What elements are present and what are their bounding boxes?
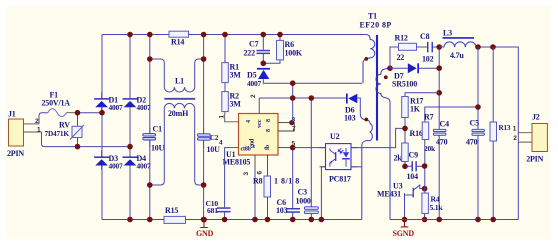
svg-text:681: 681 xyxy=(207,206,218,215)
pin 6 of U1 xyxy=(267,155,269,168)
junction: fuse output at bridge column xyxy=(99,110,105,116)
junction: line2 at D2/D4 column xyxy=(127,144,133,150)
junction: C7/R6/D5 node xyxy=(261,61,267,67)
svg-text:103: 103 xyxy=(344,114,356,123)
svg-text:7: 7 xyxy=(292,126,296,133)
capacitor C3 1000 electrolytic xyxy=(296,188,319,214)
svg-text:4007: 4007 xyxy=(109,162,123,171)
svg-text:ME431: ME431 xyxy=(377,190,401,199)
junction: rail at R8 column xyxy=(265,217,271,223)
svg-text:SGND: SGND xyxy=(393,229,415,238)
svg-text:6: 6 xyxy=(257,171,264,175)
resistor R15 in ground rail xyxy=(164,206,186,223)
wire: R17 bottom to R16 top xyxy=(404,118,406,144)
wire: L3 right along output rail to J2 pin1 xyxy=(439,47,518,220)
svg-text:4: 4 xyxy=(219,140,223,147)
svg-text:PC817: PC817 xyxy=(329,175,351,184)
svg-text:3M: 3M xyxy=(230,100,242,109)
capacitor C9 104 xyxy=(407,151,419,182)
svg-text:vcc: vcc xyxy=(256,119,263,128)
junction: SGND rail at U3 anode xyxy=(402,217,408,223)
svg-text:104: 104 xyxy=(407,172,419,181)
svg-text:C5: C5 xyxy=(470,119,480,128)
svg-text:C3: C3 xyxy=(298,188,308,197)
wire: AC input line2 row xyxy=(42,132,131,147)
junction: R17/R16/opto node xyxy=(402,126,408,132)
wire: R6 leads and link to C7/D5 node xyxy=(263,35,280,64)
wire: C9 right lead to U3 cathode column xyxy=(417,165,425,167)
svg-text:102: 102 xyxy=(422,55,434,64)
junction: U3 cathode / R4 node xyxy=(422,186,428,192)
pin 2 of J1 xyxy=(24,123,40,125)
resistor R13 xyxy=(490,122,511,141)
svg-text:ME8105: ME8105 xyxy=(223,158,251,167)
svg-text:SR5100: SR5100 xyxy=(392,80,417,89)
junction: pins 8/7 tie xyxy=(289,120,294,125)
wire: C5 column xyxy=(477,47,479,220)
junction: secondary top node xyxy=(387,65,393,71)
shunt regulator U3 ME431 xyxy=(405,185,424,220)
svg-text:T1: T1 xyxy=(368,12,377,21)
svg-text:22: 22 xyxy=(397,53,405,62)
junction: R7/C9 right node xyxy=(422,163,428,169)
polarity dot aux xyxy=(364,118,368,122)
svg-text:U2: U2 xyxy=(330,132,340,141)
svg-text:3: 3 xyxy=(243,172,250,176)
svg-text:2k: 2k xyxy=(394,154,403,163)
junction: SGND rail at C5 xyxy=(475,217,481,223)
wire: pin3 down to ground rail xyxy=(254,168,256,220)
junction: ground rail at D2/D4 column xyxy=(127,217,133,223)
wire: L1 top winding leads xyxy=(150,59,204,87)
junction: D5 wire at x=293 xyxy=(290,80,296,86)
wire: bridge left column x=102 xyxy=(101,35,103,220)
diode D1 4007 xyxy=(94,95,123,112)
transformer T1 primary winding xyxy=(363,35,375,84)
U2 internal LED xyxy=(338,148,346,167)
svg-text:470: 470 xyxy=(436,138,448,147)
wire: L1 bottom winding leads xyxy=(150,108,204,185)
svg-text:R12: R12 xyxy=(395,34,408,43)
capacitor C2 10U xyxy=(198,129,221,154)
svg-text:J1: J1 xyxy=(8,110,16,119)
svg-text:R15: R15 xyxy=(165,206,178,215)
wire: R1 top lead to rail, R1-R2 link, R2 bottom stub xyxy=(224,35,226,113)
pin 7 of U1 xyxy=(278,123,294,131)
junction: SGND rail at R13 xyxy=(490,217,496,223)
ground symbol SGND xyxy=(393,220,415,238)
junction: rail at C6 column xyxy=(290,217,296,223)
wire: C1 column x=149.8 xyxy=(149,35,151,220)
svg-text:C9: C9 xyxy=(409,151,419,160)
svg-text:L3: L3 xyxy=(443,29,452,38)
transformer T1 EF20 8P labels xyxy=(360,12,392,30)
resistor R14 xyxy=(169,31,189,46)
op-amp U1 ME8105 control IC xyxy=(223,114,279,167)
varistor RV 7D471K xyxy=(45,120,85,139)
wire: U2 left-bottom pin down to ground rail xyxy=(321,167,325,220)
wire: x=311.3 column from vcc wire through C3 to rail xyxy=(310,98,312,220)
junction: vcc wire at x=293 xyxy=(290,95,296,101)
resistor R1 3M xyxy=(222,63,242,83)
transformer T1 core xyxy=(376,35,378,141)
diode D7 SR5100 xyxy=(392,63,419,88)
junction: pin5 node xyxy=(290,145,296,151)
capacitor C5 470 electrolytic xyxy=(466,119,484,147)
svg-text:1: 1 xyxy=(37,126,41,133)
wire: R13 column xyxy=(492,47,494,220)
U2 internal phototransistor xyxy=(330,148,336,167)
pin 4 of U1 wire to C10 column xyxy=(230,147,239,149)
svg-text:L1: L1 xyxy=(175,77,184,86)
junction: SGND rail at R4 xyxy=(422,217,428,223)
connector J2 xyxy=(526,112,547,163)
svg-text:EF20 8P: EF20 8P xyxy=(360,21,392,30)
junction: rail at pin3 column xyxy=(252,217,258,223)
capacitor C10 681 xyxy=(206,199,231,215)
svg-text:100K: 100K xyxy=(285,49,303,58)
U2 pin stubs xyxy=(320,148,358,167)
svg-text:5.1k: 5.1k xyxy=(430,203,444,212)
resistor R12 22 xyxy=(395,34,417,63)
resistor R16 2k xyxy=(394,129,423,163)
capacitor C4 470 electrolytic xyxy=(433,120,449,147)
wire: U2 left-top pin to pin5 node xyxy=(293,147,326,149)
svg-text:8: 8 xyxy=(266,129,272,132)
junction: C5 column at R7 row xyxy=(475,104,481,110)
svg-text:R14: R14 xyxy=(171,38,184,47)
wire: R12 to C8 xyxy=(417,46,428,48)
wire: RV column xyxy=(77,113,79,147)
svg-text:20k: 20k xyxy=(424,144,436,153)
wire: SGND bottom rail xyxy=(390,219,519,221)
svg-text:20mH: 20mH xyxy=(168,109,189,118)
wire: C2 column x=203.6 xyxy=(203,35,205,220)
wire: R16 bottom to C9 xyxy=(405,162,412,167)
junction: top rail at R1 column xyxy=(222,32,228,38)
resistor R4 5.1k xyxy=(422,193,443,214)
pin stubs of J2 xyxy=(518,133,532,142)
svg-text:222: 222 xyxy=(244,49,256,58)
svg-text:2: 2 xyxy=(250,94,257,98)
junction: rail at C10/pin4 column xyxy=(222,217,228,223)
diode D5 4007 xyxy=(247,68,270,88)
pin 8 of U1 xyxy=(278,122,292,124)
svg-text:7D471K: 7D471K xyxy=(45,129,70,138)
junction: RV top xyxy=(75,110,81,116)
svg-text:4: 4 xyxy=(246,120,252,123)
diode D3 4007 xyxy=(94,154,123,171)
capacitor C1 10U xyxy=(143,125,165,153)
svg-text:R13: R13 xyxy=(499,124,511,132)
svg-text:1: 1 xyxy=(219,115,226,119)
resistor R6 100K xyxy=(277,40,303,60)
svg-text:4007: 4007 xyxy=(137,103,151,112)
junction: output column at snubber row xyxy=(436,44,442,50)
pin 3 of U1 xyxy=(254,155,256,168)
junction: D2 column at top rail xyxy=(127,32,133,38)
svg-text:4007: 4007 xyxy=(247,79,261,88)
svg-text:2PIN: 2PIN xyxy=(526,155,543,164)
svg-text:4.7u: 4.7u xyxy=(450,51,464,60)
junction: output rail at R13 column xyxy=(490,44,496,50)
svg-text:470: 470 xyxy=(466,138,478,147)
junction: top rail at R6 column xyxy=(277,32,283,38)
junction: ground rail at C1 column xyxy=(147,217,153,223)
junction: L1 top winding left tap xyxy=(147,56,153,62)
wire: R17 feed row xyxy=(405,93,439,97)
capacitor C8 102 xyxy=(420,32,434,64)
svg-text:C1: C1 xyxy=(153,125,163,134)
pin 1 of U1 gray pin wire xyxy=(225,113,239,122)
transformer T1 secondary winding xyxy=(376,68,390,219)
svg-text:4007: 4007 xyxy=(137,162,151,171)
junction: top rail at C1 column xyxy=(147,32,153,38)
svg-text:ct8b: ct8b xyxy=(241,147,252,153)
resistor R7 20k xyxy=(422,113,436,154)
diode D4 4007 xyxy=(123,154,151,171)
svg-text:103: 103 xyxy=(276,206,288,215)
transformer T1 aux winding xyxy=(362,120,373,220)
junction: rail at C3 column xyxy=(309,217,315,223)
capacitor C7 222 xyxy=(244,40,271,58)
pin 2 of U1 (top) xyxy=(258,98,260,114)
fuse F1 xyxy=(42,91,76,117)
resistor R8 1.8/18 xyxy=(253,176,300,197)
diode D2 4007 xyxy=(123,95,151,112)
diode D6 103 xyxy=(344,94,357,123)
optocoupler U2 PC817 xyxy=(326,132,352,184)
svg-text:250V/1A: 250V/1A xyxy=(42,99,71,108)
junction: RV bottom xyxy=(75,144,81,150)
svg-text:1000: 1000 xyxy=(296,197,311,206)
svg-text:C2: C2 xyxy=(210,134,219,142)
junction: L1 top winding right tap xyxy=(201,56,207,62)
svg-text:C8: C8 xyxy=(420,32,430,41)
wire: R7 bottom through C9 node to R4 xyxy=(424,140,426,194)
junction: output rail at C5 column xyxy=(475,44,481,50)
polarity dot primary xyxy=(364,57,368,61)
resistor R17 1K xyxy=(402,97,424,118)
wire: R4 bottom to SGND rail xyxy=(424,214,426,220)
svg-text:10U: 10U xyxy=(151,144,165,153)
svg-text:C4: C4 xyxy=(440,120,450,129)
inductor L1 20mH common mode choke xyxy=(164,87,195,108)
svg-text:1K: 1K xyxy=(410,105,421,114)
wire: C10 bottom to rail xyxy=(224,212,226,219)
svg-text:8: 8 xyxy=(266,119,272,122)
wire: AC input line1 fuse row xyxy=(39,113,102,124)
ground symbol GND xyxy=(196,217,214,238)
svg-text:1: 1 xyxy=(513,126,517,133)
inductor L3 4.7u xyxy=(443,29,476,61)
pin 1 of J1 xyxy=(24,131,42,133)
wire: D5 anode down to primary-bottom wire y=83 xyxy=(263,79,362,83)
svg-text:2: 2 xyxy=(513,135,517,142)
wire: output column x=439.2 top to C4 xyxy=(438,47,440,220)
wire: x=293 column pin5 down through C6 to rail xyxy=(292,148,294,220)
svg-text:R16: R16 xyxy=(410,129,423,138)
svg-text:2: 2 xyxy=(35,118,39,125)
svg-text:1 8/1 8: 1 8/1 8 xyxy=(274,177,300,186)
wire: C7 column from rail to snubber node xyxy=(262,35,264,63)
wire: top DC rail from bridge to transformer primary xyxy=(102,34,366,36)
wire: bridge right column x=130 xyxy=(129,35,131,220)
junction: SGND rail at C4 xyxy=(436,217,442,223)
junction: vcc wire at x=311.3 xyxy=(309,95,315,101)
svg-text:GND: GND xyxy=(196,229,214,238)
resistor R2 3M xyxy=(222,92,242,112)
junction: L1 bottom winding right tap xyxy=(201,182,207,188)
svg-text:R8: R8 xyxy=(253,177,263,186)
wire: R12 left lead down to secondary top node xyxy=(390,47,399,68)
svg-text:C7: C7 xyxy=(249,40,259,49)
polarity dot secondary xyxy=(384,75,388,79)
wire: U2 right-bottom pin to x=362 / aux return xyxy=(351,166,362,168)
wire: D6 anode to aux winding top xyxy=(357,98,366,120)
junction: L1 bottom winding left tap xyxy=(147,182,153,188)
svg-text:RV: RV xyxy=(59,120,70,129)
junction: output column at R17 feed row xyxy=(436,90,442,96)
wire: U2 right-top pin to R16 node xyxy=(351,128,406,147)
junction: top rail at C2 column xyxy=(201,32,207,38)
svg-text:J2: J2 xyxy=(532,112,540,121)
junction: rail at x=321.4 xyxy=(319,217,325,223)
wire: C8 right to output column xyxy=(433,46,439,48)
pin 5 of U1 xyxy=(278,147,293,149)
svg-text:3M: 3M xyxy=(230,71,242,80)
wire: x=293 column D5 wire to pins 8/7 xyxy=(292,83,294,122)
svg-text:2PIN: 2PIN xyxy=(7,149,24,158)
svg-text:fb: fb xyxy=(265,144,271,150)
wire: R8 bottom to ground rail xyxy=(267,197,269,220)
junction: R16/C9 node xyxy=(402,164,408,170)
wire: bottom GND rail (primary side) xyxy=(102,219,362,221)
wire: vcc net y=98 from U1 pin2 to D6 xyxy=(259,97,346,99)
junction: ground rail at C2 column xyxy=(201,217,207,223)
svg-text:R7: R7 xyxy=(424,113,434,122)
wire: D7 anode from secondary node, cathode to output column xyxy=(390,67,439,69)
svg-text:4007: 4007 xyxy=(109,103,123,112)
connector J1 xyxy=(7,110,24,158)
capacitor C6 103 xyxy=(276,198,300,215)
wire: R7 feed row from R7 top to C5 column xyxy=(425,107,478,122)
junction: output column at D7 xyxy=(436,65,442,71)
wire: pin6 to R8 xyxy=(267,168,269,176)
junction: top rail at C7 column xyxy=(261,32,267,38)
